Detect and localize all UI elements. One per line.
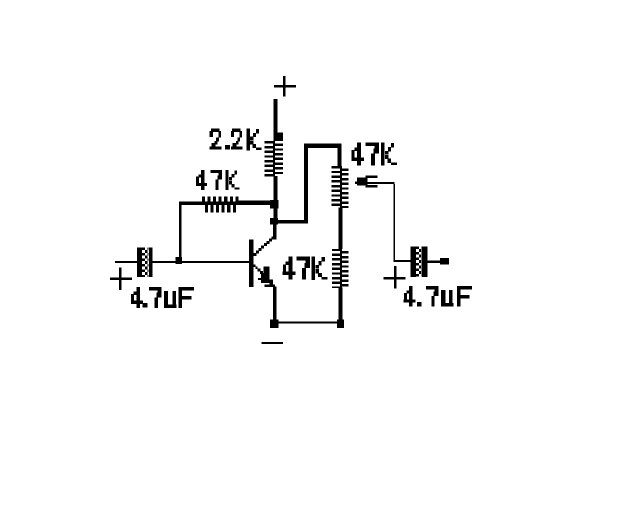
- wire bottom rail: [277, 321, 338, 323]
- wire wiper down: [393, 184, 395, 261]
- wire riser vertical: [304, 144, 308, 224]
- label C1 value 4.7uF: [131, 287, 194, 308]
- power - terminal: [262, 342, 283, 344]
- wire R3 to R4: [338, 208, 342, 250]
- wire base: [182, 261, 250, 263]
- resistor R4 47K lower: [332, 249, 349, 288]
- wire V+ to R1: [274, 99, 278, 133]
- wire C1 to node E: [152, 261, 177, 263]
- resistor R3 47K upper: [332, 166, 349, 208]
- potentiometer wiper arrow: [355, 176, 395, 188]
- wire node B to riser: [277, 220, 308, 224]
- wire top horizontal: [304, 144, 342, 149]
- capacitor C1 4.7uF: [137, 247, 152, 277]
- label C1 polarity +: [110, 268, 132, 290]
- wire R2 left lead: [179, 202, 201, 205]
- label R2 value 47K: [196, 170, 239, 190]
- label C2 polarity +: [384, 266, 406, 289]
- wire R2 to node A: [238, 201, 270, 205]
- label R1 value 2.2K: [210, 129, 262, 151]
- node D junction: [337, 320, 344, 329]
- node E junction: [176, 257, 182, 264]
- label R4 value 47K: [283, 257, 328, 280]
- terminal output: [440, 258, 449, 264]
- resistor R1 2.2K: [265, 133, 284, 177]
- wire node E to R2: [179, 205, 182, 258]
- wire wiper to C2: [393, 260, 411, 262]
- node A junction: [270, 200, 279, 209]
- transistor Q1: [249, 225, 277, 288]
- wire input lead: [115, 261, 137, 263]
- wire top to R3: [338, 145, 342, 167]
- capacitor C2 4.7uF: [411, 246, 428, 277]
- label C2 value 4.7uF: [404, 286, 472, 307]
- wire R4 to node D: [338, 288, 342, 322]
- power + terminal: [274, 76, 296, 97]
- wire C2 output lead: [428, 260, 441, 263]
- node C junction: [270, 319, 279, 327]
- node B junction: [270, 218, 278, 225]
- label R3 value 47K: [351, 143, 396, 166]
- wire node A to node B: [274, 206, 278, 220]
- wire R1 to node A: [274, 176, 278, 202]
- wire emitter to node C: [273, 287, 277, 321]
- resistor R2 47K feedback: [201, 197, 239, 213]
